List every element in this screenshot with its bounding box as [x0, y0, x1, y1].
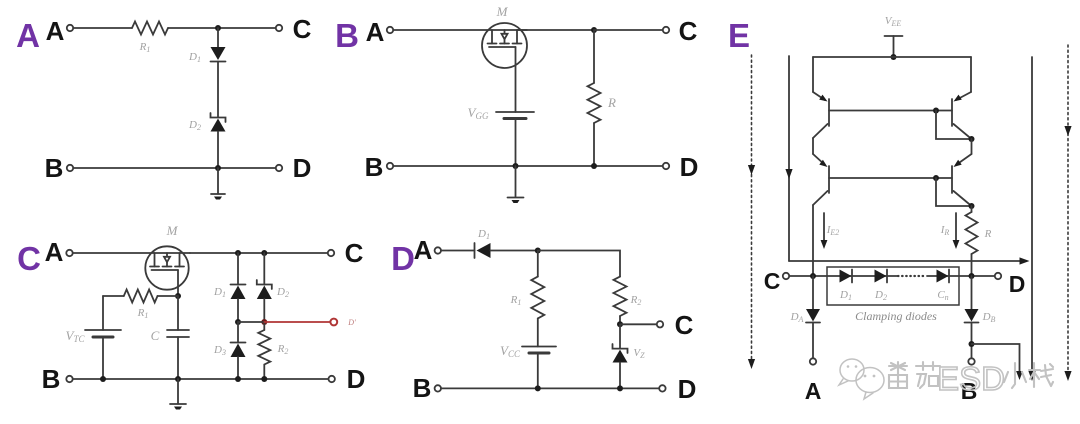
junction DB-B	[969, 341, 975, 347]
svg-text:D: D	[347, 364, 366, 394]
terminal B	[67, 165, 73, 171]
wire gate node to R1	[158, 295, 179, 297]
svg-text:M: M	[496, 4, 509, 19]
clamping diode box	[827, 267, 959, 305]
svg-text:D2: D2	[874, 289, 887, 302]
wire D1 to node	[491, 250, 538, 252]
terminal C	[657, 321, 663, 327]
wire C to D	[789, 275, 897, 277]
transistor Q4	[952, 139, 972, 206]
wire gate node to capacitor	[177, 296, 179, 330]
svg-text:B: B	[413, 373, 432, 403]
svg-text:R1: R1	[137, 307, 149, 320]
svg-text:D: D	[680, 152, 699, 182]
junction D2 top	[261, 250, 267, 256]
svg-text:D: D	[678, 374, 697, 404]
zener diode D2	[613, 344, 628, 363]
wire DA to A	[812, 323, 814, 359]
wire battery to bottom	[515, 119, 517, 167]
svg-text:B: B	[365, 152, 384, 182]
transistor Q1	[813, 57, 829, 138]
wire R1 to corner	[103, 295, 124, 297]
junction DB top	[969, 273, 975, 279]
node top junction	[591, 27, 597, 33]
diode D3	[237, 322, 239, 343]
wire D1 to D2	[217, 62, 219, 118]
MOSFET M	[482, 23, 527, 68]
junction battery-bottom	[513, 163, 519, 169]
terminal B	[387, 163, 393, 169]
wire D3 to bottom	[237, 357, 239, 379]
wire R1 to battery	[537, 318, 539, 346]
wire B to D	[441, 387, 659, 389]
node top junction	[535, 248, 541, 254]
terminal A	[387, 27, 393, 33]
svg-text:ESD: ESD	[937, 360, 1005, 397]
capacitor C	[167, 330, 189, 337]
wire left corner to right with arrow	[789, 257, 1030, 264]
red terminal	[330, 319, 337, 326]
wire MOSFET to node	[517, 29, 594, 31]
terminal D	[995, 273, 1001, 279]
wire A to MOSFET	[393, 29, 527, 31]
red wire to node Bp	[264, 321, 330, 323]
svg-text:IE2: IE2	[826, 224, 840, 237]
ground	[211, 168, 225, 200]
ground	[170, 379, 186, 410]
Q3 collector wire	[812, 205, 814, 276]
diode D1	[475, 243, 491, 258]
svg-text:C: C	[764, 268, 781, 294]
current arrow IR	[953, 213, 960, 249]
terminal C	[276, 25, 282, 31]
wire battery to bottom	[537, 353, 539, 388]
clamp diode D1	[840, 270, 853, 283]
svg-text:Cn: Cn	[937, 289, 948, 302]
resistor R	[971, 206, 973, 212]
resistor R1	[132, 22, 168, 35]
wire A to MOSFET	[73, 252, 190, 254]
wire B to D	[73, 378, 329, 380]
svg-text:B: B	[42, 364, 61, 394]
svg-text:B: B	[335, 17, 359, 54]
diode DB	[965, 276, 979, 323]
Q4 base-collector tie	[933, 175, 975, 209]
junction battery bottom	[535, 385, 541, 391]
dashed current path left	[748, 55, 755, 369]
svg-text:R: R	[984, 228, 992, 240]
wire A to D1	[441, 250, 475, 252]
terminal A	[435, 247, 441, 253]
terminal B	[66, 376, 72, 382]
svg-text:D2: D2	[188, 119, 201, 132]
svg-text:D2: D2	[276, 286, 289, 299]
dotted continuation	[898, 275, 926, 277]
terminal C	[663, 27, 669, 33]
wire battery to bottom	[102, 337, 104, 379]
gate wire to battery	[515, 47, 517, 112]
watermark text	[889, 362, 940, 388]
terminal D	[329, 376, 335, 382]
terminal A	[66, 250, 72, 256]
svg-text:C: C	[151, 328, 160, 343]
terminal C	[783, 273, 789, 279]
svg-text:A: A	[46, 16, 65, 46]
battery VGG	[496, 112, 534, 119]
svg-text:A: A	[805, 378, 822, 404]
clamp diode D2	[875, 270, 888, 283]
gate node junction	[175, 293, 181, 299]
svg-text:D1: D1	[188, 51, 201, 64]
wire to D1	[237, 253, 239, 285]
wire R2 to node	[619, 316, 621, 324]
wire B branch right down with arrow	[972, 344, 1023, 380]
svg-text:R1: R1	[139, 41, 151, 54]
svg-text:A: A	[414, 235, 433, 265]
terminal B	[435, 385, 441, 391]
wire node to zener	[619, 324, 621, 348]
svg-text:VCC: VCC	[500, 343, 521, 359]
gate wire down	[177, 270, 179, 296]
wire mid connector	[238, 321, 264, 323]
svg-text:C: C	[293, 14, 312, 44]
wire node to D1	[217, 28, 219, 47]
junction DA top	[810, 273, 816, 279]
svg-text:C: C	[675, 310, 694, 340]
solid current path right	[1028, 57, 1035, 381]
wire DB to B	[971, 323, 973, 359]
junction D3 bottom	[235, 376, 241, 382]
svg-text:D′: D′	[347, 318, 356, 327]
terminal C	[328, 250, 334, 256]
svg-text:Clamping diodes: Clamping diodes	[855, 309, 937, 323]
svg-text:A: A	[45, 237, 64, 267]
svg-text:A: A	[16, 17, 40, 54]
svg-text:M: M	[166, 223, 179, 238]
svg-text:R: R	[607, 95, 616, 110]
battery VCC	[522, 347, 556, 354]
svg-text:R1: R1	[510, 294, 522, 307]
dashed current path right	[1064, 45, 1071, 381]
node bottom junction	[215, 165, 221, 171]
zener diode D2	[211, 113, 226, 132]
solid current path left	[785, 56, 792, 261]
svg-text:VZ: VZ	[633, 347, 645, 360]
svg-text:C: C	[17, 240, 41, 277]
diode D1	[231, 285, 246, 300]
junction VTC bottom	[100, 376, 106, 382]
wire node to C	[620, 323, 657, 325]
svg-text:A: A	[366, 17, 385, 47]
junction mid left	[235, 319, 241, 325]
svg-text:VGG: VGG	[468, 105, 489, 121]
ground	[508, 166, 524, 203]
terminal A	[67, 25, 73, 31]
svg-text:D1: D1	[839, 289, 852, 302]
wire A to resistor	[73, 27, 132, 29]
base wire row2	[829, 177, 952, 179]
resistor R2	[614, 277, 627, 316]
base wire row1	[829, 110, 952, 112]
current arrow IE	[821, 213, 828, 249]
junction zener bottom	[617, 385, 623, 391]
junction VEE rail	[891, 54, 897, 60]
terminal A	[810, 358, 816, 364]
terminal D	[659, 385, 665, 391]
svg-text:C: C	[679, 16, 698, 46]
wire to D2	[263, 253, 265, 285]
terminal D	[663, 163, 669, 169]
resistor R2	[263, 322, 265, 330]
wire B to D	[73, 167, 276, 169]
transistor Q3	[813, 138, 829, 205]
svg-text:D: D	[1009, 271, 1026, 297]
svg-text:B: B	[45, 153, 64, 183]
resistor R1	[124, 290, 158, 303]
svg-text:C: C	[345, 238, 364, 268]
wire D2 to bottom	[217, 132, 219, 169]
svg-text:VTC: VTC	[66, 328, 86, 344]
junction mid right	[261, 319, 267, 325]
wire D2 to mid node	[263, 299, 265, 322]
resistor R1	[537, 251, 539, 277]
junction D1 top	[235, 250, 241, 256]
node C junction	[617, 321, 623, 327]
wire corner down to battery	[102, 296, 104, 330]
wire D1 to mid node	[237, 299, 239, 322]
svg-text:IR: IR	[940, 224, 950, 237]
node top junction	[215, 25, 221, 31]
wire resistor to C	[168, 27, 276, 29]
watermark logo chat bubbles	[839, 359, 884, 399]
svg-text:E: E	[728, 17, 750, 54]
wire node to corner	[538, 251, 620, 277]
battery VTC	[85, 330, 121, 337]
wire zener to bottom	[619, 363, 621, 389]
wire capacitor to bottom	[177, 337, 179, 379]
transistor Q2	[952, 57, 972, 139]
junction resistor-bottom	[591, 163, 597, 169]
top rail	[813, 56, 971, 58]
svg-text:VEE: VEE	[885, 15, 902, 28]
svg-text:R2: R2	[630, 294, 642, 307]
junction R2 bottom	[261, 376, 267, 382]
svg-text:D: D	[293, 153, 312, 183]
svg-text:D1: D1	[477, 228, 490, 241]
terminal D	[276, 165, 282, 171]
wire node to C	[594, 29, 663, 31]
MOSFET M	[145, 246, 188, 289]
diode DA	[806, 276, 820, 323]
diode D1	[211, 47, 226, 62]
clamp diode Dn	[937, 270, 950, 283]
svg-text:R2: R2	[277, 343, 289, 356]
terminal B	[968, 358, 974, 364]
svg-text:D: D	[391, 240, 415, 277]
zener diode D2	[257, 280, 272, 299]
svg-text:D3: D3	[213, 344, 226, 357]
wire B to D	[393, 165, 662, 167]
resistor R	[593, 30, 595, 83]
wire MOSFET to C	[190, 252, 328, 254]
svg-text:DA: DA	[790, 311, 804, 324]
Q2 base-collector tie	[933, 108, 975, 143]
junction cap bottom	[175, 376, 181, 382]
svg-text:D1: D1	[213, 286, 226, 299]
supply VEE	[885, 36, 903, 57]
svg-text:DB: DB	[982, 311, 996, 324]
